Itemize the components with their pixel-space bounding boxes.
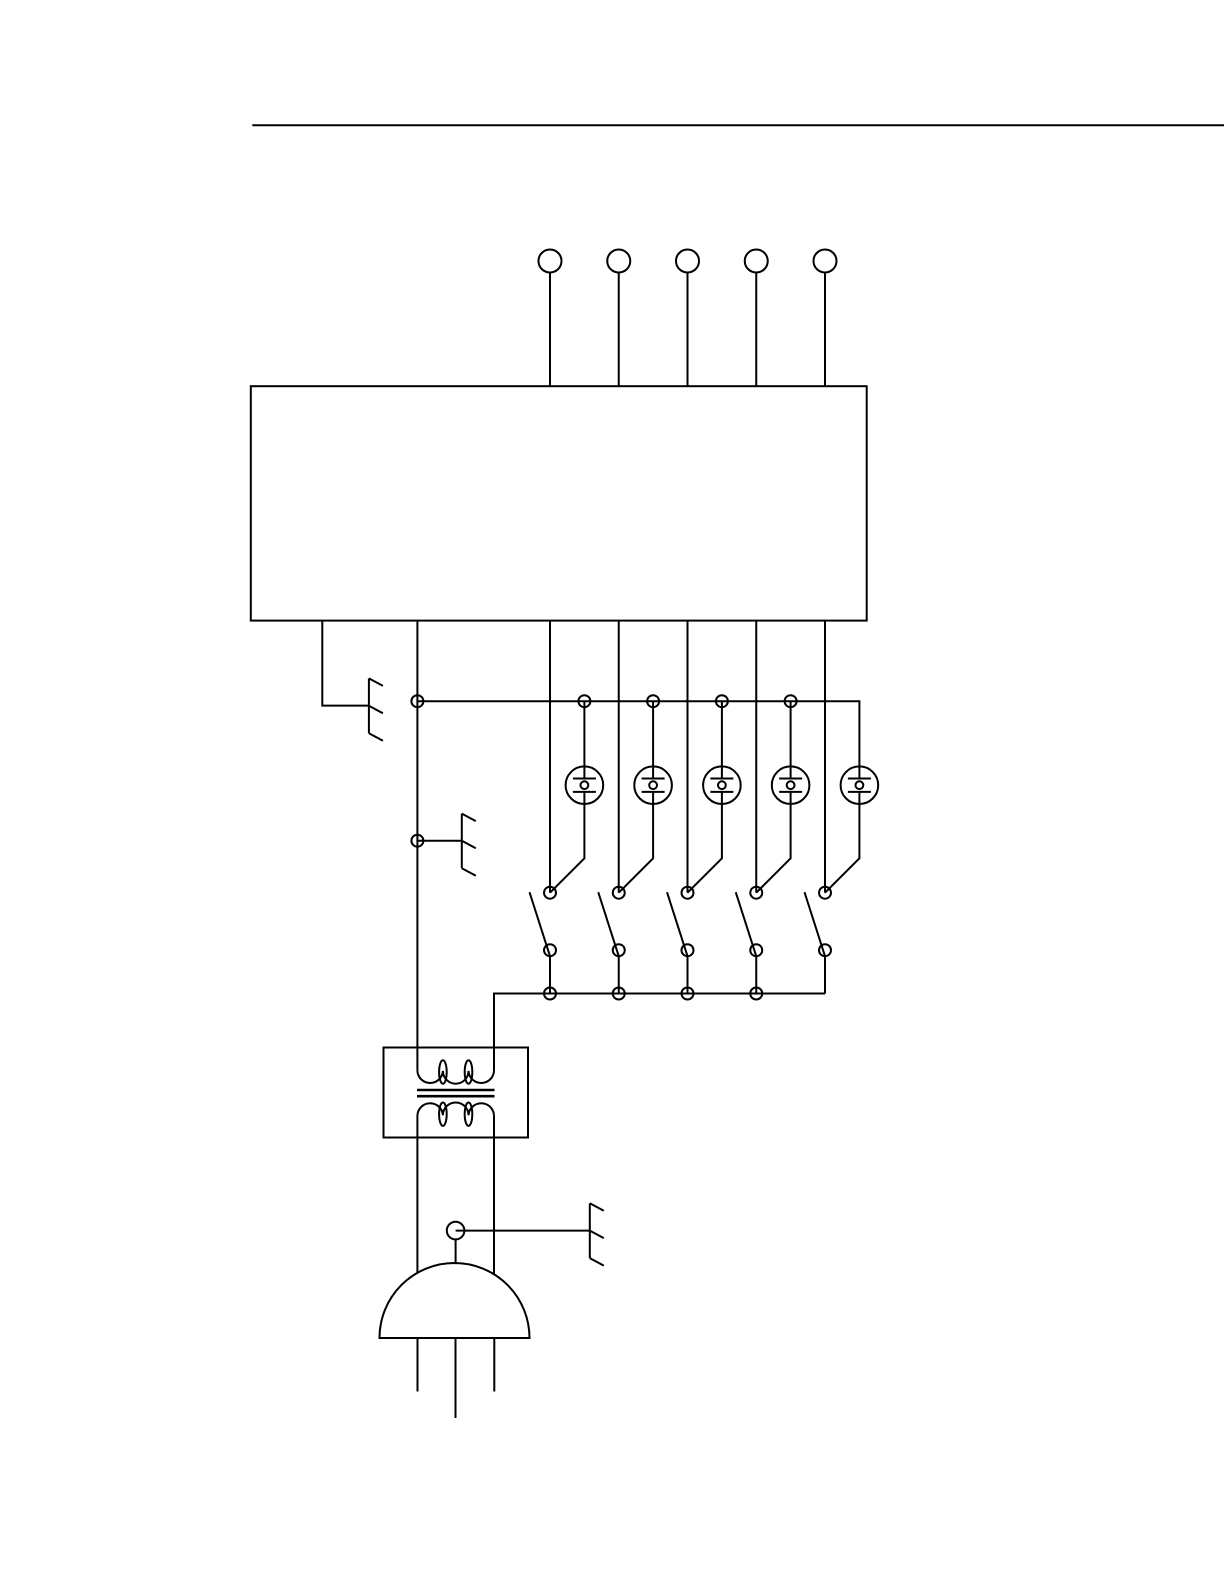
wire [687,956,689,993]
wire [550,804,584,893]
terminal 2 [607,250,630,273]
junction [578,695,590,707]
terminal 1 [539,250,562,273]
plug pin 1 [417,1338,419,1392]
terminal 4 [745,250,768,273]
wire [755,956,757,993]
wire [618,621,620,893]
switch S3 [667,887,694,957]
wire [322,621,369,706]
junction [647,695,659,707]
wire bottom bus [494,994,825,1071]
wire [493,1115,495,1274]
junction [613,988,625,1000]
wire [583,701,585,766]
wire [549,273,551,387]
wire [455,1239,457,1264]
lamp DS2 [634,766,672,804]
wire [618,273,620,387]
chassis symbol 2 [462,814,476,876]
switch S5 [805,887,832,957]
primary winding [417,1071,494,1084]
junction [750,988,762,1000]
chassis symbol 1 [369,678,383,740]
lamp DS4 [772,766,810,804]
wire [755,621,757,893]
wire [549,956,551,993]
plug pin 3 [493,1338,495,1392]
core [417,1089,495,1092]
mains plug P1 [380,1263,530,1338]
switch S2 [598,887,625,957]
wire [417,840,461,842]
earth node [447,1222,465,1240]
node A [411,695,423,707]
junction [682,988,694,1000]
wire [688,804,722,893]
wire [687,621,689,893]
wire [416,621,418,1071]
switch S1 [530,887,557,957]
wire [756,804,790,893]
lamp DS5 [841,766,879,804]
wire [824,621,826,893]
wire [619,804,653,893]
terminal 3 [676,250,699,273]
top rule [252,124,1224,126]
wire [456,1230,590,1232]
lamp DS3 [703,766,741,804]
secondary winding [417,1102,494,1115]
wire [618,956,620,993]
chassis symbol 3 [590,1203,604,1265]
plug pin 2 (earth) [455,1338,457,1418]
wire [687,273,689,387]
wire [824,956,826,993]
controller box U1 [251,386,867,620]
wire [825,804,859,893]
node B [411,835,423,847]
wire lamp bus [417,701,859,766]
wire [755,273,757,387]
transformer box [384,1048,529,1138]
terminal 5 [814,250,837,273]
wire [549,621,551,893]
wire [721,701,723,766]
switch S4 [736,887,763,957]
wire [824,273,826,387]
junction [544,988,556,1000]
junction [785,695,797,707]
junction [716,695,728,707]
wire [790,701,792,766]
wire [416,1115,418,1273]
wire [652,701,654,766]
lamp DS1 [566,766,604,804]
